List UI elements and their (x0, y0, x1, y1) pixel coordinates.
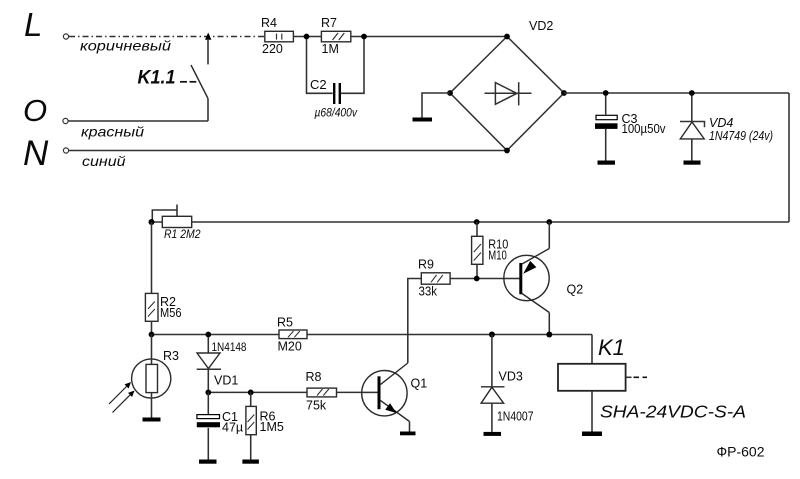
resistor R2 (145, 293, 181, 321)
svg-text:ФР-602: ФР-602 (717, 445, 765, 460)
svg-text:R3: R3 (163, 349, 179, 363)
node junction R7 right (361, 34, 367, 40)
svg-text:R5: R5 (277, 316, 293, 330)
resistor R7 (321, 16, 351, 56)
ground (C1) (199, 460, 217, 464)
svg-text:M20: M20 (278, 340, 302, 354)
photoresistor R3 (132, 335, 179, 418)
wire: base rail y392 (208, 391, 377, 393)
svg-text:R1 2M2: R1 2M2 (164, 227, 201, 241)
wire R4 to R7 (293, 36, 321, 38)
svg-text:1M: 1M (322, 42, 339, 56)
node rail Q2 emitter (546, 219, 552, 225)
ground (R6) (242, 460, 259, 464)
svg-text:47µ: 47µ (222, 421, 243, 435)
trimmer resistor R1 (152, 205, 200, 242)
svg-text:коричневый: коричневый (80, 38, 171, 54)
wire left branch down to R2 (151, 222, 153, 294)
ground (K1) (582, 432, 602, 437)
svg-text:L: L (24, 6, 42, 43)
svg-text:SHA-24VDC-S-A: SHA-24VDC-S-A (600, 402, 746, 422)
node VD1 top (205, 332, 211, 338)
svg-text:синий: синий (82, 153, 126, 169)
wire: distribution rail (152, 221, 790, 223)
node bridge bottom (504, 148, 510, 154)
svg-text:K1.1: K1.1 (138, 68, 176, 89)
resistor R5 (277, 316, 307, 354)
svg-text:VD3: VD3 (499, 370, 523, 384)
svg-text:R8: R8 (306, 370, 322, 384)
node bridge top (504, 34, 510, 40)
wire: red O line (69, 120, 209, 122)
resistor R10 (472, 222, 509, 279)
node R6 top (248, 390, 254, 396)
node VD1 bottom (205, 390, 211, 396)
ground (bridge left) (413, 118, 433, 122)
svg-text:R7: R7 (321, 16, 337, 30)
terminal N (23, 134, 69, 173)
resistor R4 (261, 16, 293, 56)
node C3 top (603, 90, 609, 96)
node R10 bottom (474, 276, 480, 282)
svg-text:1N4148: 1N4148 (212, 340, 247, 354)
wire: right edge vertical (788, 93, 790, 222)
svg-text:1N4749 (24v): 1N4749 (24v) (709, 129, 773, 143)
node rail R10 (474, 219, 480, 225)
wire: blue N line to bridge bottom (69, 150, 507, 152)
svg-text:N: N (23, 134, 49, 173)
svg-text:K1: K1 (598, 335, 625, 360)
node junction R4-R7 left (304, 34, 310, 40)
svg-text:R4: R4 (261, 16, 277, 30)
bridge rectifier VD2 (450, 19, 564, 151)
wire: mid rail (152, 334, 593, 336)
svg-text:красный: красный (81, 124, 144, 140)
node bridge left (447, 90, 453, 96)
wire R7 to bridge top (351, 36, 507, 38)
wire Q1 collector to R9 (408, 279, 422, 364)
svg-text:R9: R9 (418, 258, 434, 272)
node R1 left (149, 219, 155, 225)
resistor R6 (246, 392, 284, 459)
transistor Q1 (362, 363, 428, 432)
diode VD1 (197, 335, 247, 393)
wire R2 to mid rail (151, 322, 153, 335)
relay K1 (558, 335, 746, 432)
wire: positive rail right (564, 92, 789, 94)
label K1.1 with link dashes (138, 68, 197, 89)
svg-text:C2: C2 (310, 77, 327, 92)
transistor Q2 (504, 222, 583, 335)
svg-text:M56: M56 (160, 306, 182, 320)
svg-text:220: 220 (262, 42, 283, 56)
switch K1.1 (191, 33, 211, 122)
svg-text:Q2: Q2 (567, 283, 584, 297)
resistor R9 (418, 258, 504, 299)
ground (C3) (598, 161, 616, 165)
svg-text:O: O (23, 93, 47, 128)
node bridge right (561, 90, 567, 96)
zener diode VD4 (680, 93, 773, 161)
capacitor C2 in parallel with R7 (307, 37, 365, 120)
svg-text:M10: M10 (488, 249, 507, 263)
wire bridge left to ground (422, 93, 450, 118)
ground (VD4) (684, 161, 701, 165)
photoresistor arrows (109, 382, 135, 413)
capacitor C3 (595, 93, 666, 161)
terminal L (24, 6, 69, 43)
node Q2 collector rail (546, 332, 552, 338)
svg-text:VD1: VD1 (214, 374, 238, 388)
svg-text:100µ50v: 100µ50v (622, 122, 667, 136)
resistor R8 (306, 370, 337, 413)
svg-text:33k: 33k (419, 285, 438, 299)
diode VD3 (481, 335, 534, 432)
capacitor C1 (197, 392, 243, 459)
svg-text:1M5: 1M5 (260, 420, 284, 434)
node VD3 top (489, 332, 495, 338)
svg-text:1N4007: 1N4007 (497, 410, 534, 424)
svg-text:Q1: Q1 (411, 377, 428, 391)
svg-text:VD2: VD2 (529, 19, 553, 33)
svg-text:VD4: VD4 (709, 116, 733, 130)
ground (Q1 emitter) (400, 432, 416, 436)
ground (R3) (143, 418, 161, 422)
ground (VD3) (484, 432, 502, 436)
node VD4 top (689, 90, 695, 96)
svg-text:75k: 75k (306, 399, 327, 413)
svg-text:µ68/400v: µ68/400v (315, 106, 358, 120)
wire: dashed L line to R4 (69, 36, 265, 38)
terminal O (23, 93, 68, 128)
node R2 bottom (149, 332, 155, 338)
